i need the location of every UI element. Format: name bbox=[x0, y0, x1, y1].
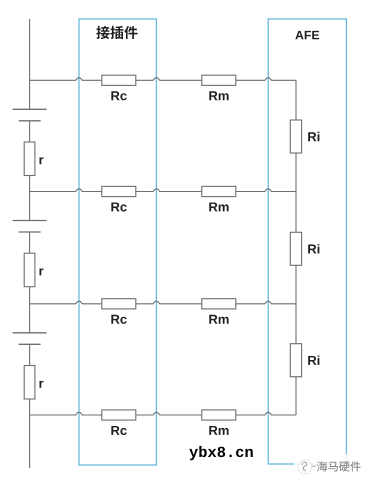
wire Ri2 to Ri3 bbox=[295, 265, 297, 343]
wire row 3 middle segment bbox=[136, 301, 202, 304]
wire row 4 middle segment bbox=[136, 412, 202, 415]
wire battery3 to r3 bbox=[29, 344, 31, 365]
wire r3 bottom tail bbox=[29, 399, 31, 468]
label AFE bbox=[295, 31, 319, 39]
watermark background bbox=[294, 454, 368, 478]
wire row 2 right segment bbox=[236, 189, 296, 192]
label Ri2 bbox=[308, 244, 319, 253]
wire row 2 left segment bbox=[30, 189, 102, 192]
wire row 4 left segment bbox=[30, 412, 102, 415]
label Rc2 bbox=[111, 202, 126, 211]
label r2 bbox=[39, 268, 43, 275]
label r1 bbox=[39, 157, 43, 164]
resistor Ri1 bbox=[290, 120, 301, 153]
resistor Rc2 bbox=[102, 186, 136, 196]
battery cell B1 bbox=[13, 109, 47, 121]
resistor Rc1 bbox=[102, 75, 136, 85]
wire r1 to battery2 bbox=[29, 176, 31, 221]
wire row 1 left segment bbox=[30, 78, 102, 81]
resistor Rm3 bbox=[202, 299, 236, 309]
label Ri3 bbox=[308, 355, 319, 364]
wire row 2 middle segment bbox=[136, 189, 202, 192]
wire Ri3 to row4 bbox=[295, 377, 297, 415]
label Rm2 bbox=[209, 202, 228, 211]
watermark logo (seahorse badge) bbox=[298, 460, 312, 474]
watermark dash bbox=[311, 465, 316, 467]
resistor r2 (cell internal resistance) bbox=[24, 253, 35, 287]
battery cell B3 bbox=[13, 333, 47, 345]
site url ybx8.cn bbox=[189, 446, 252, 460]
AFE box bbox=[268, 19, 346, 464]
wire left rail top bbox=[29, 19, 31, 109]
label Ri1 bbox=[308, 132, 319, 141]
resistor r3 (cell internal resistance) bbox=[24, 366, 35, 400]
resistor Rc4 bbox=[102, 410, 136, 420]
battery cell B2 bbox=[13, 221, 47, 233]
resistor Ri3 bbox=[290, 344, 301, 377]
wire row 1 right segment bbox=[236, 78, 296, 81]
label Rm4 bbox=[209, 426, 228, 435]
wire row 3 left segment bbox=[30, 301, 102, 304]
label 接插件 (connector) bbox=[96, 26, 137, 39]
label Rm3 bbox=[209, 315, 228, 324]
wire row 4 right segment bbox=[236, 412, 296, 415]
connector box 接插件 bbox=[79, 19, 156, 465]
label r3 bbox=[39, 381, 43, 388]
wire Ri1 to Ri2 bbox=[295, 153, 297, 232]
resistor Rc3 bbox=[102, 299, 136, 309]
wire row 3 right segment bbox=[236, 301, 296, 304]
wire battery1 to r1 bbox=[29, 121, 31, 142]
wire r2 to battery3 bbox=[29, 287, 31, 333]
label Rm1 bbox=[209, 91, 228, 100]
resistor Ri2 bbox=[290, 232, 301, 265]
wire row 1 middle segment bbox=[136, 78, 202, 81]
wire battery2 to r2 bbox=[29, 232, 31, 253]
resistor Rm2 bbox=[202, 186, 236, 196]
watermark text 海马硬件 bbox=[317, 461, 361, 471]
wire right rail row1 to Ri1 bbox=[295, 80, 297, 120]
label Rc4 bbox=[111, 426, 126, 435]
resistor Rm1 bbox=[202, 75, 236, 85]
label Rc1 bbox=[111, 91, 126, 100]
resistor r1 (cell internal resistance) bbox=[24, 142, 35, 176]
label Rc3 bbox=[111, 315, 126, 324]
resistor Rm4 bbox=[202, 410, 236, 420]
